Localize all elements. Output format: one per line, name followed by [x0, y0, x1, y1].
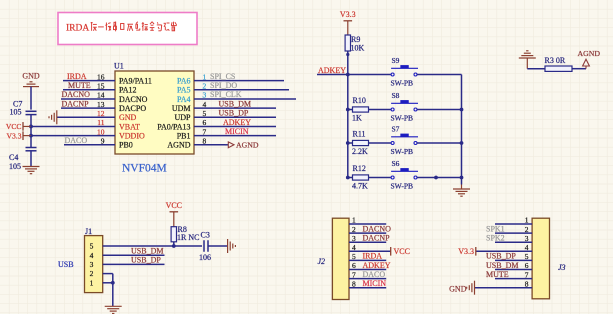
svg-text:5: 5	[90, 242, 94, 251]
svg-text:IRDA: IRDA	[67, 72, 87, 81]
net label DACO at J2	[363, 270, 386, 279]
svg-text:S7: S7	[392, 124, 400, 133]
wire J3 pin3	[495, 241, 532, 243]
resistor R11	[348, 130, 369, 156]
net label USB_DM	[219, 99, 251, 108]
wire J2 pin5	[349, 259, 386, 261]
J3 designator	[558, 263, 566, 272]
wire J2 pin4 to VCC	[349, 250, 391, 252]
wire VCC node to V3.3 node	[30, 126, 32, 135]
net label IRDA	[67, 72, 87, 81]
wire+label USB_DM J1 pin4	[103, 247, 165, 256]
switch S9 SW-PB	[391, 56, 419, 88]
svg-text:R3 0R: R3 0R	[545, 56, 566, 65]
svg-text:VCC: VCC	[6, 122, 22, 131]
svg-text:SW-PB: SW-PB	[391, 114, 414, 123]
svg-text:AGND: AGND	[578, 49, 601, 58]
svg-text:1K: 1K	[352, 114, 362, 123]
svg-text:V3.3: V3.3	[340, 10, 356, 19]
wire J1 gnd vertical	[112, 274, 114, 307]
svg-text:2: 2	[90, 269, 94, 278]
J2 pin numbers	[352, 216, 356, 289]
ground J1	[105, 306, 122, 313]
wire net SPI_CLK from U1 pin 3	[194, 98, 296, 100]
svg-text:V3.3: V3.3	[458, 247, 474, 256]
wire J2 pin1	[349, 223, 386, 225]
svg-text:105: 105	[10, 108, 22, 117]
wire J1 pin5 row to R8/C3	[103, 245, 202, 247]
wire R11 to S7	[369, 142, 391, 144]
svg-text:MUTE: MUTE	[68, 81, 91, 90]
wire S9 to right rail	[417, 74, 461, 76]
wire net IRDA to U1 pin 16	[63, 80, 115, 82]
wire V3.3 node to C4	[30, 136, 32, 148]
svg-text:DACO: DACO	[363, 270, 386, 279]
svg-text:R11: R11	[353, 130, 366, 139]
resistor R12	[348, 164, 369, 190]
svg-text:VDDIO: VDDIO	[119, 132, 145, 141]
capacitor C3	[199, 230, 211, 262]
power port AGND arrow up	[578, 49, 601, 69]
J3 pin numbers	[525, 216, 529, 289]
wire+label USB_DP J1 pin3	[103, 256, 165, 265]
wire J3 pin6	[495, 269, 532, 271]
wire U1 pin 8 AGND	[194, 144, 225, 146]
junction ADKEY rail	[346, 73, 350, 77]
wire S7 to right rail	[417, 141, 463, 145]
ground top-right inverted	[519, 51, 536, 69]
power port AGND arrow right	[225, 140, 259, 149]
wire J3 pin7	[495, 278, 532, 280]
svg-text:2.2K: 2.2K	[352, 147, 368, 156]
net label ADKEY at J2	[363, 261, 391, 270]
ground right of C3	[228, 239, 236, 253]
svg-text:VCC: VCC	[394, 247, 410, 256]
svg-text:1: 1	[90, 278, 94, 287]
net label USB_DP	[219, 109, 249, 118]
svg-text:3: 3	[90, 260, 94, 269]
capacitor C4	[9, 148, 37, 172]
svg-text:IRDA: IRDA	[363, 252, 383, 261]
svg-text:ADKEY: ADKEY	[223, 118, 251, 127]
wire C7 to VCC node	[30, 115, 32, 127]
svg-text:NVF04M: NVF04M	[122, 163, 167, 175]
net label MICIN	[225, 127, 249, 136]
svg-text:USB_DM: USB_DM	[131, 247, 163, 256]
wire ADKEY row to S9	[317, 74, 391, 76]
ground bottom-left	[23, 167, 40, 174]
wire J2 pin3	[349, 241, 386, 243]
wire R9 to ADKEY rail	[346, 51, 349, 75]
net label MUTE	[68, 81, 91, 90]
svg-text:USB: USB	[58, 260, 74, 269]
U1 pin names and numbers	[97, 72, 207, 149]
svg-text:SPI_CLK: SPI_CLK	[210, 90, 242, 99]
wire J3 pin2	[495, 232, 532, 234]
net label SPI_DO	[210, 81, 237, 90]
svg-text:ADKEY: ADKEY	[318, 66, 346, 75]
power port VCC at R8	[166, 201, 182, 227]
right rail wire	[461, 75, 463, 178]
net label USB_DP at J3	[486, 252, 516, 261]
power port V3.3 bar left	[7, 131, 31, 140]
svg-text:USB_DP: USB_DP	[219, 109, 249, 118]
wire S8 to right rail	[417, 108, 463, 112]
wire net SPI_CS from U1 pin 1	[194, 80, 284, 82]
wire R8 to junction	[172, 242, 176, 248]
wire J3 pin5	[495, 259, 532, 261]
U1 designator	[114, 62, 124, 71]
J1 pin numbers	[90, 242, 94, 288]
svg-text:PA9/PA11: PA9/PA11	[119, 77, 152, 86]
power port V3.3 bar at J3	[458, 247, 476, 256]
wire U1 pin 12 GND	[57, 116, 115, 118]
wire R10 to S8	[369, 109, 391, 111]
wire J3 pin1	[495, 223, 532, 225]
wire net DACNO to U1 pin 14	[61, 98, 115, 100]
svg-text:J3: J3	[558, 263, 566, 272]
wire C4 to ground	[30, 151, 32, 167]
wire net MICIN from U1 pin 7	[194, 135, 276, 137]
wire VCC to U1 pin 11 VBAT	[31, 125, 115, 127]
wire J2 pin8	[349, 287, 386, 289]
ground keypad	[453, 189, 470, 196]
svg-text:DACNP: DACNP	[363, 234, 391, 243]
svg-text:DACNO: DACNO	[119, 95, 148, 104]
svg-text:UDM: UDM	[172, 104, 191, 113]
svg-text:DACNP: DACNP	[62, 99, 90, 108]
junction left rail row S6	[346, 176, 350, 180]
power port V3.3 top	[340, 10, 356, 35]
ground at U1 pin 12	[49, 110, 57, 124]
switch S7 SW-PB	[391, 124, 419, 156]
svg-text:SPI_CS: SPI_CS	[210, 72, 235, 81]
wire J3 pin8 to GND	[475, 287, 532, 289]
resistor R8	[171, 225, 199, 242]
svg-text:ADKEY: ADKEY	[363, 261, 391, 270]
wire J1 pin1	[103, 281, 115, 285]
wire R30 to AGND	[572, 68, 586, 70]
connector J2 body	[332, 218, 349, 299]
J2 designator	[318, 257, 326, 266]
svg-text:PA5: PA5	[177, 86, 191, 95]
svg-text:C3: C3	[201, 230, 210, 239]
power port VCC bar left	[6, 122, 31, 131]
wire net DACO to U1 pin 9	[64, 144, 115, 146]
capacitor C7	[10, 100, 37, 117]
net label SPK1 at J3	[486, 224, 505, 233]
net label IRDA at J2	[363, 252, 383, 261]
svg-text:DACPO: DACPO	[119, 104, 146, 113]
svg-text:IRDA: IRDA	[66, 24, 89, 34]
svg-text:UDP: UDP	[174, 113, 191, 122]
svg-text:PA12: PA12	[119, 86, 137, 95]
wire V3.3 to U1 pin 10 VDDIO	[31, 135, 115, 137]
svg-text:1R NC: 1R NC	[177, 233, 199, 242]
svg-text:MICIN: MICIN	[363, 279, 387, 288]
wire R12 to S6	[369, 177, 391, 179]
svg-text:DACO: DACO	[65, 136, 88, 145]
connector J1 body	[85, 236, 103, 293]
svg-text:VCC: VCC	[166, 201, 182, 210]
svg-text:PB0: PB0	[119, 141, 133, 150]
J1 designator	[85, 227, 92, 236]
net label DACO	[65, 136, 88, 145]
junction left rail row S7	[346, 141, 350, 145]
svg-text:U1: U1	[114, 62, 124, 71]
svg-text:R10: R10	[353, 96, 366, 105]
svg-text:USB_DP: USB_DP	[486, 252, 516, 261]
net label ADKEY	[223, 118, 251, 127]
net label DACNP at J2	[363, 234, 391, 243]
svg-text:PA6: PA6	[177, 77, 191, 86]
wire GND to C7	[30, 87, 32, 110]
svg-text:V3.3: V3.3	[7, 132, 22, 141]
net label SPI_CLK	[210, 90, 242, 99]
svg-text:J2: J2	[318, 257, 326, 266]
svg-text:4: 4	[90, 251, 94, 260]
svg-text:SW-PB: SW-PB	[391, 79, 414, 88]
junction VCC node	[29, 125, 33, 129]
switch S8 SW-PB	[391, 91, 419, 123]
svg-text:MUTE: MUTE	[486, 270, 509, 279]
wire J3 pin4 to V3.3	[476, 250, 532, 252]
svg-text:DACNO: DACNO	[363, 224, 392, 233]
svg-text:SW-PB: SW-PB	[391, 147, 414, 156]
svg-text:PA4: PA4	[177, 95, 191, 104]
svg-text:USB_DP: USB_DP	[131, 256, 161, 265]
svg-text:AGND: AGND	[236, 140, 259, 149]
junction left rail row S8	[346, 108, 350, 112]
wire C3 to ground	[208, 245, 228, 247]
left rail wire	[347, 75, 349, 178]
op IC U1 body	[115, 71, 194, 154]
svg-text:R12: R12	[353, 164, 366, 173]
power port VCC bar at J2	[391, 247, 410, 256]
wire ground to R30	[527, 68, 545, 70]
net label ADKEY	[318, 66, 346, 75]
wire J1 pin2	[103, 273, 113, 275]
wire net DACNP to U1 pin 13	[61, 107, 115, 109]
svg-text:R9: R9	[351, 35, 360, 44]
wire S6 to right rail	[417, 176, 463, 180]
wire J2 pin2	[349, 232, 386, 234]
svg-text:PA0/PA13: PA0/PA13	[157, 122, 190, 131]
svg-text:VBAT: VBAT	[119, 122, 140, 131]
U1 value NVF04M	[122, 163, 167, 175]
power port GND top-left	[22, 72, 40, 87]
net label DACNO	[62, 90, 91, 99]
svg-text:DACNO: DACNO	[62, 90, 91, 99]
svg-text:SPK1: SPK1	[486, 224, 505, 233]
net label SPI_CS	[210, 72, 235, 81]
svg-text:106: 106	[199, 253, 211, 262]
net label USB_DM at J3	[486, 261, 518, 270]
svg-text:S6: S6	[392, 159, 400, 168]
wire net USB_DP from U1 pin 5	[194, 116, 276, 118]
svg-text:SPI_DO: SPI_DO	[210, 81, 237, 90]
svg-text:SPK2: SPK2	[486, 234, 505, 243]
resistor R9	[345, 35, 364, 53]
svg-text:J1: J1	[85, 227, 92, 236]
wire net ADKEY from U1 pin 6	[194, 125, 276, 127]
svg-text:GND: GND	[449, 285, 467, 294]
wire net MUTE to U1 pin 15	[63, 89, 115, 91]
junction V3.3 node	[29, 134, 33, 138]
net label MICIN at J2	[363, 279, 387, 288]
net label USB	[58, 260, 74, 269]
resistor R30	[545, 56, 573, 71]
svg-text:SW-PB: SW-PB	[391, 182, 414, 191]
annotation box: IRDA note	[58, 13, 197, 45]
resistor R10	[348, 96, 369, 122]
svg-text:USB_DM: USB_DM	[486, 261, 518, 270]
wire right rail to ground	[461, 178, 463, 190]
svg-text:PB1: PB1	[177, 132, 191, 141]
connector J3 body	[532, 218, 549, 299]
net label DACNO at J2	[363, 224, 392, 233]
wire J2 pin7	[349, 278, 386, 280]
wire net SPI_DO from U1 pin 2	[194, 89, 289, 91]
net label SPK2 at J3	[486, 234, 505, 243]
svg-text:AGND: AGND	[167, 141, 190, 150]
svg-text:GND: GND	[22, 72, 40, 81]
switch S6 SW-PB	[391, 159, 419, 191]
svg-text:S8: S8	[392, 91, 400, 100]
svg-text:USB_DM: USB_DM	[219, 99, 251, 108]
wire J2 pin6	[349, 269, 386, 271]
power port GND at J3	[449, 281, 474, 295]
net label MUTE at J3	[486, 270, 509, 279]
svg-text:4.7K: 4.7K	[352, 182, 368, 191]
svg-text:S9: S9	[392, 56, 400, 65]
svg-text:MICIN: MICIN	[225, 127, 249, 136]
svg-text:10K: 10K	[351, 44, 365, 53]
svg-text:105: 105	[9, 162, 21, 171]
net label DACNP	[62, 99, 90, 108]
svg-text:C4: C4	[9, 153, 18, 162]
svg-text:GND: GND	[119, 113, 137, 122]
wire net USB_DM from U1 pin 4	[194, 107, 276, 109]
